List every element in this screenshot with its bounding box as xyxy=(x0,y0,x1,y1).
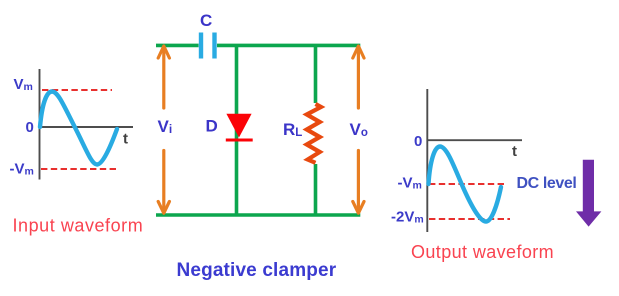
svg-text:0: 0 xyxy=(26,119,34,136)
svg-text:Output waveform: Output waveform xyxy=(411,242,554,262)
svg-text:Vm: Vm xyxy=(14,76,33,93)
svg-text:-Vm: -Vm xyxy=(10,161,34,178)
svg-text:Vo: Vo xyxy=(350,120,368,139)
svg-text:DC level: DC level xyxy=(517,175,577,192)
svg-text:-Vm: -Vm xyxy=(398,175,422,192)
svg-text:D: D xyxy=(206,117,218,136)
svg-text:RL: RL xyxy=(283,120,302,139)
svg-text:C: C xyxy=(200,11,212,30)
svg-text:t: t xyxy=(512,143,517,160)
svg-text:-2Vm: -2Vm xyxy=(391,209,424,226)
svg-text:Input waveform: Input waveform xyxy=(13,216,144,236)
svg-text:Negative clamper: Negative clamper xyxy=(177,260,337,281)
svg-text:0: 0 xyxy=(414,133,422,150)
svg-text:t: t xyxy=(123,131,128,148)
svg-text:Vi: Vi xyxy=(158,117,173,136)
